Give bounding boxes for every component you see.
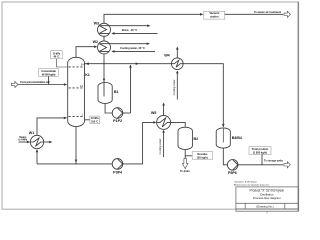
svg-text:B1: B1 [114, 90, 119, 94]
svg-text:station: station [210, 15, 219, 19]
svg-text:100 °C: 100 °C [91, 120, 98, 123]
svg-text:To storage tanks: To storage tanks [264, 160, 284, 163]
svg-text:B2: B2 [194, 137, 199, 141]
svg-text:To waste air treatment: To waste air treatment [254, 10, 281, 14]
svg-text:46 °C: 46 °C [53, 56, 59, 59]
svg-text:Operation: 8 000 h/year: Operation: 8 000 h/year [234, 180, 257, 183]
svg-text:W1: W1 [29, 131, 34, 135]
svg-text:K1: K1 [85, 73, 90, 77]
svg-text:All pressures are absolute pre: All pressures are absolute pressures [234, 183, 270, 186]
svg-text:P3P4: P3P4 [113, 170, 123, 174]
svg-text:0.4 MPa: 0.4 MPa [18, 139, 28, 142]
svg-text:Cooling water: Cooling water [158, 138, 162, 154]
svg-text:Vacuum: Vacuum [209, 11, 220, 15]
svg-text:Cooling water: Cooling water [172, 79, 176, 95]
svg-text:W3: W3 [94, 21, 99, 25]
svg-text:Cooling water, 20 °C: Cooling water, 20 °C [120, 46, 145, 50]
svg-text:P1P2: P1P2 [113, 119, 122, 123]
svg-text:Residue: Residue [197, 152, 208, 156]
svg-text:W2: W2 [93, 40, 98, 44]
svg-text:Final product: Final product [252, 147, 269, 151]
svg-text:Process flow diagram: Process flow diagram [253, 196, 281, 200]
svg-text:B3/B4: B3/B4 [232, 136, 243, 140]
svg-text:(1 850 kg/h): (1 850 kg/h) [253, 150, 267, 154]
svg-text:Concentrate: Concentrate [41, 69, 56, 73]
svg-text:Brine, -10 °C: Brine, -10 °C [122, 28, 138, 32]
svg-text:From preconcentration cell: From preconcentration cell [20, 81, 50, 84]
svg-text:P5P6: P5P6 [228, 171, 237, 175]
svg-text:(4 000 kg/h): (4 000 kg/h) [42, 72, 56, 76]
svg-text:(Drawing No.): (Drawing No.) [256, 204, 273, 208]
svg-text:W5: W5 [151, 111, 156, 115]
svg-text:To drain: To drain [180, 170, 190, 173]
svg-text:(20 kg/h): (20 kg/h) [197, 155, 208, 159]
